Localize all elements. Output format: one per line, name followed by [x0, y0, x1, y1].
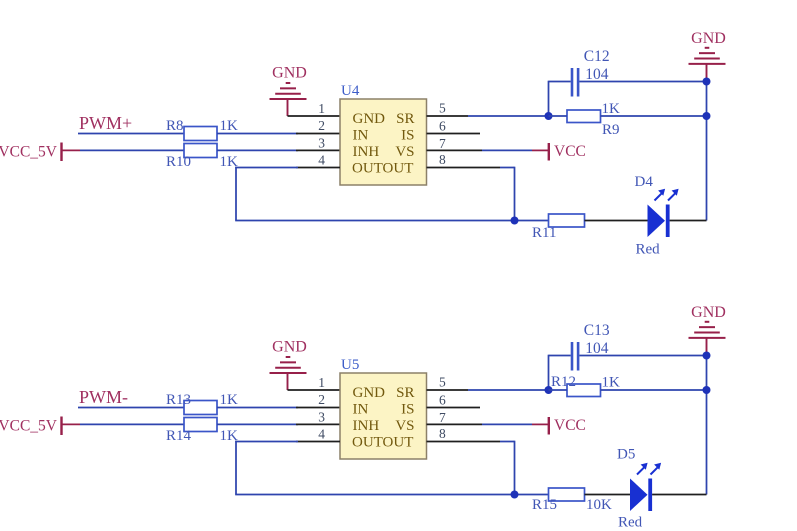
svg-text:D5: D5	[617, 447, 635, 463]
wire pin 4 OUTOUT feedback bus	[296, 167, 340, 169]
svg-text:7: 7	[439, 136, 446, 151]
wire pin 5 to R12/C13 node	[427, 389, 469, 391]
wire R9 to rail	[549, 115, 568, 117]
svg-text:104: 104	[585, 66, 609, 83]
wire pin 7 to VCC	[427, 149, 483, 151]
wire GND stem to rail	[706, 64, 708, 82]
svg-text:4: 4	[318, 426, 325, 441]
svg-text:IS: IS	[401, 402, 414, 418]
svg-text:SR: SR	[396, 385, 414, 401]
svg-text:GND: GND	[353, 111, 386, 127]
junction rail / R9 wire	[703, 112, 711, 120]
LED D4 Red	[635, 174, 679, 258]
wire PWM+ to R8	[78, 133, 184, 135]
svg-text:OUTOUT: OUTOUT	[352, 435, 413, 451]
svg-text:GND: GND	[691, 304, 726, 321]
pin numbers 1-4 of U4	[318, 101, 325, 167]
svg-text:C12: C12	[584, 48, 610, 65]
resistor R10 1K	[166, 144, 238, 171]
svg-text:U4: U4	[341, 83, 360, 99]
wire pin 5 to R9/C12 node	[427, 115, 469, 117]
svg-text:3: 3	[318, 136, 325, 151]
capacitor C12 104	[571, 48, 610, 97]
svg-text:Red: Red	[636, 242, 661, 258]
wire GND stem to pin 1	[287, 373, 289, 390]
svg-text:3: 3	[318, 410, 325, 425]
LED D5 Red	[617, 447, 661, 531]
svg-text:INH: INH	[353, 144, 380, 160]
svg-text:1K: 1K	[602, 101, 621, 117]
svg-text:R8: R8	[166, 118, 184, 134]
svg-text:5: 5	[439, 375, 446, 390]
wire VCC_5V to R14	[80, 423, 184, 425]
svg-text:PWM-: PWM-	[79, 387, 128, 407]
svg-text:U5: U5	[341, 357, 359, 373]
wire GND stem to rail	[706, 338, 708, 356]
junction rail / cap wire	[703, 352, 711, 360]
junction rail / cap wire	[703, 78, 711, 86]
svg-text:PWM+: PWM+	[79, 113, 132, 133]
svg-text:VS: VS	[395, 418, 414, 434]
wire pin 1 of U4	[288, 115, 341, 117]
svg-text:8: 8	[439, 152, 446, 167]
wire pin 8 down to output bus	[427, 167, 501, 169]
wire R12 to rail	[549, 389, 568, 391]
wire D5 cathode to rail	[652, 494, 706, 496]
wire R8 to pin 2	[217, 133, 298, 135]
svg-text:10K: 10K	[586, 497, 612, 513]
capacitor C13 104	[571, 322, 610, 371]
wire R13 to pin 2	[217, 407, 298, 409]
resistor R13 1K	[166, 392, 238, 415]
wire PWM- to R13	[78, 407, 184, 409]
svg-text:R15: R15	[532, 497, 557, 513]
svg-text:IN: IN	[353, 402, 369, 418]
wire GND stem to pin 1	[287, 99, 289, 116]
resistor R11	[532, 214, 585, 241]
svg-text:VCC_5V: VCC_5V	[0, 144, 58, 161]
svg-text:INH: INH	[353, 418, 380, 434]
pin numbers 5-8 of U4	[439, 101, 446, 167]
wire R14 to pin 3	[217, 423, 298, 425]
pin numbers 1-4 of U5	[318, 375, 325, 441]
pin numbers 5-8 of U5	[439, 375, 446, 441]
svg-text:R11: R11	[532, 225, 556, 241]
ground GND at U4 pin 1	[270, 65, 307, 100]
junction pin 8 / bus	[511, 217, 519, 225]
power port VCC_5V	[0, 417, 80, 436]
svg-text:C13: C13	[584, 322, 610, 339]
svg-text:4: 4	[318, 152, 325, 167]
IC U4 half-bridge driver	[340, 83, 427, 185]
svg-text:1: 1	[318, 101, 325, 116]
resistor R12 1K	[551, 374, 620, 397]
ground GND right rail	[689, 30, 726, 64]
junction pin5 / C13	[545, 386, 553, 394]
junction pin5 / C12	[545, 112, 553, 120]
svg-text:GND: GND	[691, 30, 726, 47]
svg-text:2: 2	[318, 118, 325, 133]
wire GND rail vertical	[706, 356, 708, 495]
svg-text:VCC: VCC	[554, 417, 586, 434]
resistor R14 1K	[166, 418, 238, 445]
wire pin 7 to VCC	[427, 423, 483, 425]
svg-text:VCC: VCC	[554, 143, 586, 160]
svg-text:R9: R9	[602, 122, 620, 138]
wire C12 branch	[549, 81, 571, 83]
svg-text:5: 5	[439, 101, 446, 116]
svg-text:SR: SR	[396, 111, 414, 127]
svg-text:IS: IS	[401, 128, 414, 144]
svg-text:GND: GND	[272, 65, 307, 82]
wire pin 6 IS stub	[427, 407, 481, 409]
wire R10 to pin 3	[217, 149, 298, 151]
power port VCC	[549, 417, 586, 435]
svg-text:1K: 1K	[220, 392, 239, 408]
IC U5 half-bridge driver	[340, 357, 427, 459]
svg-text:VCC_5V: VCC_5V	[0, 418, 58, 435]
svg-text:R10: R10	[166, 154, 191, 170]
wire R15 to D5 anode	[585, 494, 631, 496]
wire pin 6 IS stub	[427, 133, 481, 135]
svg-text:GND: GND	[272, 339, 307, 356]
svg-text:R13: R13	[166, 392, 191, 408]
wire pin 4 OUTOUT feedback bus	[296, 441, 340, 443]
wire pin 8 down to output bus	[427, 441, 501, 443]
ground GND right rail	[689, 304, 726, 338]
wire C13 branch	[549, 355, 571, 357]
svg-text:1: 1	[318, 375, 325, 390]
svg-text:R14: R14	[166, 428, 192, 444]
svg-text:D4: D4	[635, 174, 654, 190]
svg-text:VS: VS	[395, 144, 414, 160]
resistor R9 1K	[567, 101, 620, 138]
wire GND rail vertical	[706, 82, 708, 221]
svg-text:6: 6	[439, 392, 446, 407]
wire R11 to D4 anode	[585, 220, 648, 222]
resistor R15 10K	[532, 488, 612, 513]
power port VCC_5V	[0, 143, 80, 162]
svg-text:R12: R12	[551, 374, 576, 390]
svg-text:1K: 1K	[602, 375, 621, 391]
wire VCC_5V to R10	[80, 149, 184, 151]
svg-text:OUTOUT: OUTOUT	[352, 161, 413, 177]
svg-text:Red: Red	[618, 515, 643, 531]
svg-text:1K: 1K	[220, 118, 239, 134]
svg-text:104: 104	[585, 340, 609, 357]
svg-text:2: 2	[318, 392, 325, 407]
svg-text:7: 7	[439, 410, 446, 425]
junction rail / R12 wire	[703, 386, 711, 394]
junction pin 8 / bus	[511, 491, 519, 499]
wire pin 1 of U5	[288, 389, 341, 391]
svg-text:GND: GND	[353, 385, 386, 401]
ground GND at U5 pin 1	[270, 339, 307, 374]
svg-text:8: 8	[439, 426, 446, 441]
svg-text:IN: IN	[353, 128, 369, 144]
svg-text:6: 6	[439, 118, 446, 133]
power port VCC	[549, 143, 586, 161]
wire D4 cathode to rail	[670, 220, 707, 222]
resistor R8 1K	[166, 118, 238, 141]
